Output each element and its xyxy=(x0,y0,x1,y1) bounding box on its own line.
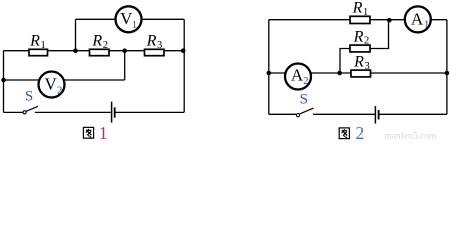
node: main wire / right vertical xyxy=(445,71,450,76)
switch S (fig1) pivot xyxy=(23,111,26,114)
svg-text:2: 2 xyxy=(303,76,308,87)
label R1 (fig2) xyxy=(352,0,369,18)
svg-text:R: R xyxy=(353,28,364,45)
svg-text:R: R xyxy=(91,32,102,49)
wire: voltmeter V2 branch horizontal xyxy=(4,79,125,81)
svg-text:3: 3 xyxy=(365,61,370,72)
resistor R2 (fig2) xyxy=(350,45,370,52)
label V1 xyxy=(120,9,137,31)
node: junction A2 right / R2 bottom xyxy=(337,71,342,76)
svg-text:2: 2 xyxy=(103,40,108,51)
switch S (fig1) blade xyxy=(26,106,38,111)
ammeter A1 circle xyxy=(405,6,431,32)
voltmeter V2 circle xyxy=(39,72,65,98)
node: junction R2-R3 / V2 tap xyxy=(122,48,127,53)
svg-text:1: 1 xyxy=(41,40,46,51)
wire: main middle horizontal (A2 / R3 row) xyxy=(269,72,447,74)
wire: left vertical xyxy=(268,20,270,115)
wire: bottom middle segment (switch to battery) xyxy=(35,111,111,113)
svg-text:S: S xyxy=(25,89,33,105)
node: main wire to right vertical xyxy=(181,48,186,53)
switch S (fig2) pivot xyxy=(296,114,299,117)
resistor R1 (fig1) xyxy=(29,49,48,55)
label V2 xyxy=(44,75,62,97)
svg-text:R: R xyxy=(29,32,40,49)
wire: bottom right segment (battery to right corner) xyxy=(380,113,447,115)
label A2 xyxy=(291,66,309,88)
caption glyph 图 (fig1) xyxy=(83,127,93,138)
node: left vertical / main wire xyxy=(267,71,272,76)
wire: bottom left segment to switch xyxy=(269,113,297,115)
resistor R3 (fig2) xyxy=(351,70,371,77)
ammeter A2 circle xyxy=(285,64,311,90)
svg-text:manfen5.com: manfen5.com xyxy=(384,130,437,141)
wire: left vertical xyxy=(3,51,5,113)
wire: R2 left lead down to main wire xyxy=(340,49,350,74)
svg-text:1: 1 xyxy=(132,20,137,31)
battery (fig1) long plate xyxy=(111,102,113,123)
label R3 (fig2) xyxy=(353,53,370,71)
resistor R3 (fig1) xyxy=(145,49,165,55)
wire: right vertical xyxy=(183,19,185,112)
label R3 (fig1) xyxy=(146,32,163,50)
node: junction R1 right / R2 top / A1 xyxy=(387,18,392,23)
svg-text:V: V xyxy=(44,75,57,94)
wire: right vertical xyxy=(446,20,448,115)
battery (fig1) short plate xyxy=(114,107,116,117)
wire: voltmeter V1 branch vertical xyxy=(75,19,77,50)
svg-text:1: 1 xyxy=(363,7,368,18)
svg-text:1: 1 xyxy=(99,123,108,141)
svg-text:A: A xyxy=(291,66,304,85)
node: junction R1-R2 / V1 tap xyxy=(73,48,78,53)
label R2 (fig2) xyxy=(353,28,370,46)
node: left vertical / V2 branch xyxy=(1,78,6,83)
svg-text:3: 3 xyxy=(157,40,162,51)
battery (fig2) long plate xyxy=(374,106,376,123)
resistor R2 (fig1) xyxy=(90,49,110,55)
resistor R1 (fig2) xyxy=(350,16,370,23)
svg-text:S: S xyxy=(300,92,308,108)
wire: bottom middle segment (switch to battery) xyxy=(313,113,375,115)
wire: bottom left segment to switch xyxy=(4,111,24,113)
svg-text:2: 2 xyxy=(364,36,369,47)
wire: voltmeter V1 branch top horizontal xyxy=(76,18,185,20)
wire: R2 right lead up to top wire xyxy=(370,20,389,48)
svg-text:A: A xyxy=(411,9,424,28)
wire: top horizontal (R1 row) xyxy=(269,19,447,21)
voltmeter V1 circle xyxy=(116,6,142,32)
caption glyph 图 (fig2) xyxy=(339,128,349,139)
svg-text:R: R xyxy=(146,32,157,49)
label R2 (fig1) xyxy=(91,32,108,50)
svg-text:R: R xyxy=(352,0,363,16)
wire: bottom right segment (battery to right corner) xyxy=(116,111,185,113)
svg-text:2: 2 xyxy=(356,123,365,141)
battery (fig2) short plate xyxy=(378,110,380,120)
wire: main horizontal (node A to node D) xyxy=(4,50,185,52)
svg-text:1: 1 xyxy=(424,20,429,31)
svg-text:R: R xyxy=(353,53,364,70)
wire: voltmeter V2 branch vertical xyxy=(124,51,126,80)
label R1 (fig1) xyxy=(29,32,46,50)
svg-text:2: 2 xyxy=(57,85,62,96)
label A1 xyxy=(411,9,429,30)
switch S (fig2) blade xyxy=(300,108,314,114)
